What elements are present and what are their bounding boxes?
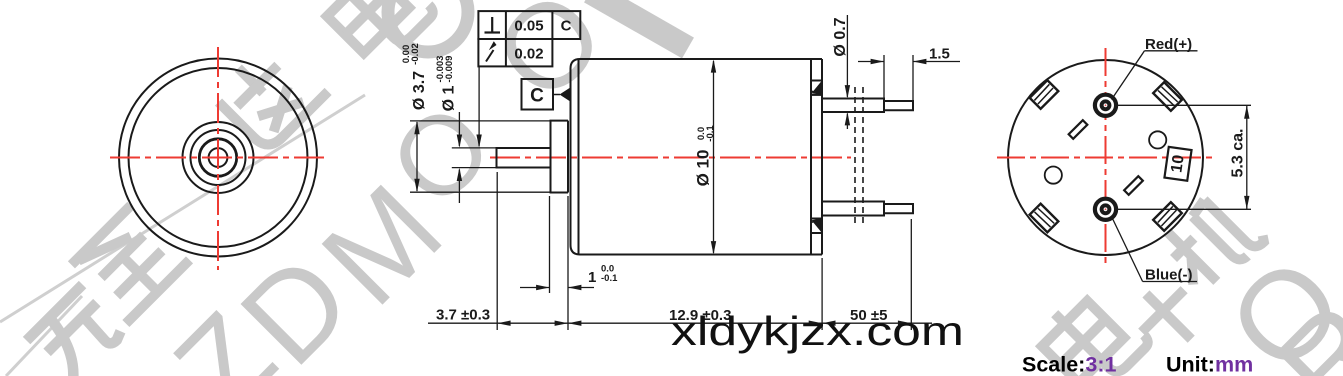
svg-text:C: C [530,86,544,107]
svg-text:10: 10 [1168,154,1187,174]
svg-text:Scale:3:1: Scale:3:1 [1022,353,1116,376]
svg-text:xldykjzx.com: xldykjzx.com [671,308,964,354]
svg-text:Ø 0.7: Ø 0.7 [832,17,849,56]
svg-text:Blue(-): Blue(-) [1145,267,1193,284]
svg-text:Red(+): Red(+) [1145,36,1192,53]
svg-text:-0.02: -0.02 [410,43,421,65]
svg-text:-0.1: -0.1 [601,273,618,284]
svg-text:Ø 1: Ø 1 [441,86,458,112]
svg-text:Ø 10: Ø 10 [694,150,713,187]
svg-text:5.3 ca.: 5.3 ca. [1230,129,1247,178]
svg-text:0.02: 0.02 [514,46,543,63]
svg-text:-0.009: -0.009 [444,56,455,83]
svg-text:-0.1: -0.1 [705,125,716,142]
svg-text:C: C [561,18,572,35]
svg-text:1: 1 [588,269,596,286]
svg-text:3.7 ±0.3: 3.7 ±0.3 [436,307,490,324]
svg-text:Ø 3.7: Ø 3.7 [411,71,428,110]
svg-text:1.5: 1.5 [929,46,950,63]
svg-text:Unit:mm: Unit:mm [1166,353,1253,376]
svg-text:0.05: 0.05 [514,18,543,35]
